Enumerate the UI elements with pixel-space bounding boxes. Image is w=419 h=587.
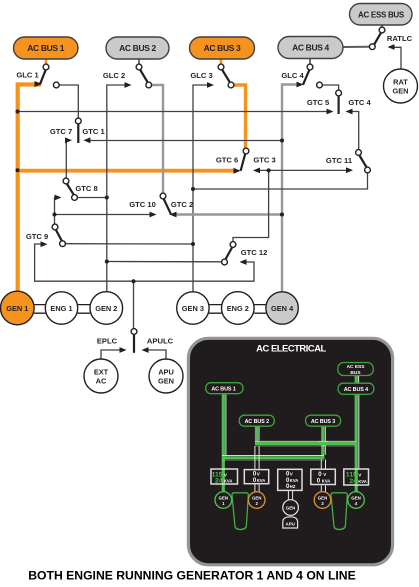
switch GTC10/GTC2 (closed) bbox=[150, 193, 177, 217]
svg-text:KVA: KVA bbox=[224, 479, 233, 484]
svg-text:GTC 7: GTC 7 bbox=[50, 127, 72, 136]
svg-text:GTC 11: GTC 11 bbox=[326, 156, 353, 165]
bus pill AC BUS 4 bbox=[278, 37, 343, 59]
bus pill AC BUS 3 bbox=[190, 37, 255, 59]
wire: EPLC vertical from node to pivot bbox=[133, 281, 135, 329]
label RATLC bbox=[387, 34, 413, 43]
svg-text:GEN: GEN bbox=[219, 496, 229, 501]
wire: AC BUS 4 to RATLC contact bbox=[343, 46, 370, 48]
panel voltage box GEN2 0V 0KVA bbox=[244, 470, 268, 484]
wire: orange powered path GEN1 to GLC1 and down bbox=[18, 85, 41, 293]
svg-text:BUS: BUS bbox=[350, 370, 361, 376]
switch GLC3 (open) bbox=[207, 64, 234, 88]
svg-text:AC BUS 3: AC BUS 3 bbox=[204, 43, 241, 53]
label GTC 7 bbox=[50, 127, 72, 136]
svg-text:GEN 3: GEN 3 bbox=[182, 304, 204, 313]
svg-text:GTC 2: GTC 2 bbox=[171, 200, 193, 209]
svg-text:AC BUS 2: AC BUS 2 bbox=[245, 419, 269, 425]
node dot x193 y244 bbox=[191, 242, 195, 246]
node dot x269 y169.5 bbox=[267, 168, 271, 172]
svg-text:GTC 12: GTC 12 bbox=[241, 248, 268, 257]
svg-text:GEN: GEN bbox=[158, 377, 174, 386]
source APU GEN bbox=[149, 359, 183, 393]
panel APU shape bbox=[283, 517, 298, 528]
panel voltage box GEN1 115V 24KVA bbox=[211, 469, 238, 485]
switch GLC1 (closed) bbox=[35, 64, 60, 88]
label GTC 11 bbox=[326, 156, 353, 165]
wire: RAT GEN up to RATLC arrow bbox=[392, 47, 401, 69]
generator GEN 2 bbox=[90, 292, 123, 325]
wire: GTC9 right contact to node x=193 bbox=[65, 243, 193, 245]
generator GEN 1 bbox=[1, 291, 35, 325]
svg-text:GEN 4: GEN 4 bbox=[271, 304, 294, 313]
panel bus label box AC ESS BUS bbox=[338, 363, 374, 376]
svg-text:APULC: APULC bbox=[147, 337, 174, 346]
svg-text:EPLC: EPLC bbox=[97, 337, 118, 346]
svg-text:GTC 4: GTC 4 bbox=[348, 98, 371, 107]
wire: AC BUS 3 orange stub bbox=[220, 59, 223, 64]
svg-text:GEN: GEN bbox=[351, 496, 361, 501]
svg-text:AC ELECTRICAL: AC ELECTRICAL bbox=[256, 343, 326, 354]
label GLC 4 bbox=[281, 71, 304, 80]
label GTC 6 bbox=[216, 156, 238, 165]
switch GTC11 (open) bbox=[346, 150, 370, 174]
panel white feeder GEN2 bbox=[255, 446, 259, 492]
display panel AC ELECTRICAL bbox=[188, 338, 392, 565]
bus pill AC BUS 2 bbox=[106, 37, 169, 59]
svg-text:AC BUS 4: AC BUS 4 bbox=[292, 43, 329, 53]
svg-text:AC BUS 1: AC BUS 1 bbox=[27, 43, 64, 53]
wire: orange GLC3 right contact down to GTC6 pivot bbox=[234, 85, 246, 148]
wire: horizontal bus line y=111.5 bbox=[18, 111, 329, 113]
panel green AC BUS2 drop bbox=[257, 426, 260, 445]
svg-text:AC: AC bbox=[96, 377, 107, 386]
switch GTC7/GTC1 (open) bbox=[65, 118, 90, 143]
wire: GLC1 right contact down to GTC7 pivot bbox=[59, 85, 78, 118]
svg-text:ENG 1: ENG 1 bbox=[50, 304, 72, 313]
panel white edge of upper tie bbox=[255, 440, 356, 442]
svg-text:AC ESS: AC ESS bbox=[347, 364, 366, 370]
caption BOTH ENGINE RUNNING GENERATOR 1 AND 4 ON LINE bbox=[28, 569, 356, 583]
bus pill AC ESS BUS bbox=[350, 4, 413, 26]
panel green tie ESS to BUS4 bbox=[356, 376, 358, 384]
switch EPLC/APULC (open) bbox=[120, 329, 149, 353]
node dot x54.5 y214.5 bbox=[53, 213, 57, 217]
svg-text:24: 24 bbox=[349, 478, 357, 485]
svg-text:GEN 2: GEN 2 bbox=[95, 304, 117, 313]
label APULC bbox=[147, 337, 174, 346]
wire: GTC7 left contact down to GTC8 pivot bbox=[66, 141, 68, 179]
connector bars GEN3-ENG2 bbox=[209, 305, 222, 314]
panel APU GEN circle bbox=[283, 500, 299, 516]
panel engine pylon 2 bbox=[331, 493, 347, 530]
label GTC 2 bbox=[171, 200, 193, 209]
svg-text:AC BUS 1: AC BUS 1 bbox=[211, 387, 235, 393]
wire: GTC2 right to x=282 bbox=[173, 213, 282, 215]
node dot x107 y261.5 bbox=[105, 260, 109, 264]
svg-text:GTC 1: GTC 1 bbox=[82, 127, 105, 136]
source EXT AC bbox=[84, 359, 118, 393]
panel bus label box AC BUS 1 bbox=[206, 383, 243, 394]
wire: AC BUS 2 stub bbox=[138, 59, 140, 64]
wire: AC BUS 1 orange stub bbox=[45, 59, 48, 64]
wire: GTC8 right contact to x=107 bbox=[77, 197, 107, 199]
panel GEN 1 circle bbox=[215, 492, 232, 509]
label GTC 9 bbox=[26, 232, 48, 241]
generator GEN 4 bbox=[266, 292, 298, 324]
panel voltage box APU 0V 0KVA 0HZ bbox=[278, 469, 302, 490]
svg-text:GEN: GEN bbox=[392, 87, 408, 96]
panel white feeder GEN3 bbox=[321, 460, 325, 492]
wire: GTC11 contact elbow down-left to node x=193 bbox=[193, 173, 368, 189]
panel bus label box AC BUS 4 bbox=[338, 383, 374, 394]
svg-text:ENG 2: ENG 2 bbox=[227, 304, 249, 313]
panel white edge of lower tie bbox=[222, 455, 324, 457]
panel GEN 3 circle bbox=[314, 492, 331, 509]
svg-text:GLC 2: GLC 2 bbox=[103, 71, 125, 80]
svg-text:GLC 1: GLC 1 bbox=[16, 71, 39, 80]
svg-text:KVA: KVA bbox=[257, 478, 266, 483]
panel GEN 4 circle bbox=[348, 492, 365, 509]
svg-text:RAT: RAT bbox=[393, 78, 408, 87]
wire: orange branch y=170 to GTC6 bbox=[18, 169, 236, 173]
label GLC 1 bbox=[16, 71, 39, 80]
wire: GLC4 left contact down to GEN4 bbox=[282, 85, 298, 293]
wire: AC ESS BUS stub bbox=[381, 25, 383, 27]
panel GEN 2 circle bbox=[248, 492, 265, 509]
node dot x17.5 y111.5 bbox=[16, 110, 20, 114]
svg-text:RATLC: RATLC bbox=[387, 34, 413, 43]
label GTC 10 bbox=[129, 200, 156, 209]
svg-text:GTC 9: GTC 9 bbox=[26, 232, 48, 241]
connector bars ENG2-GEN4 bbox=[254, 305, 266, 314]
svg-text:AC ESS BUS: AC ESS BUS bbox=[358, 10, 405, 19]
svg-text:KVA: KVA bbox=[322, 478, 331, 483]
wire: GLC2 left contact down to GEN2 bbox=[107, 85, 127, 292]
bus pill AC BUS 1 bbox=[14, 37, 79, 59]
wire: GLC2 right contact down to GTC10 pivot bbox=[152, 85, 164, 193]
wire: GTC4 right contact down to GTC11 pivot bbox=[350, 112, 359, 150]
wire: AC BUS 4 stub bbox=[309, 59, 311, 64]
switch GTC9 (open) bbox=[41, 224, 66, 247]
panel green bus line AC BUS1 down to GEN1 bbox=[223, 394, 226, 492]
svg-text:GEN: GEN bbox=[286, 506, 296, 511]
label GTC 3 bbox=[253, 156, 275, 165]
engine ENG 2 bbox=[222, 292, 255, 325]
switch GTC12 (closed) bbox=[222, 242, 247, 265]
svg-text:HZ: HZ bbox=[290, 484, 296, 489]
svg-text:GEN: GEN bbox=[252, 496, 262, 501]
svg-text:24: 24 bbox=[215, 478, 223, 485]
switch GTC5/GTC4 (open) bbox=[327, 90, 353, 114]
label GTC 5 bbox=[307, 98, 330, 107]
connector bars GEN1-ENG1 bbox=[34, 305, 45, 314]
panel engine pylon 1 bbox=[232, 493, 248, 530]
connector bars ENG1-GEN2 bbox=[78, 305, 91, 314]
wire: GLC3 left contact down to GEN3 bbox=[193, 85, 210, 293]
panel green AC BUS3 drop bbox=[318, 426, 327, 459]
panel green bus line AC BUS4 down to GEN4 bbox=[356, 394, 359, 492]
panel white feeder APU bbox=[288, 490, 292, 500]
svg-text:AC BUS 4: AC BUS 4 bbox=[344, 387, 368, 393]
label GTC 12 bbox=[241, 248, 268, 257]
panel title AC ELECTRICAL bbox=[256, 343, 326, 354]
node dot x282 y214.5 bbox=[280, 213, 284, 217]
svg-text:KVA: KVA bbox=[358, 479, 367, 484]
svg-text:AC BUS 2: AC BUS 2 bbox=[119, 43, 156, 53]
node dot x282 y140.5 bbox=[280, 139, 284, 143]
node dot x107 y197.5 bbox=[105, 196, 109, 200]
svg-text:GEN: GEN bbox=[318, 496, 328, 501]
label GTC 8 bbox=[75, 184, 97, 193]
wire: GLC4 right contact to GTC5 pivot bbox=[322, 85, 338, 90]
panel bus label box AC BUS 3 bbox=[306, 415, 341, 426]
switch GTC6/GTC3 (closed) bbox=[234, 148, 261, 174]
svg-text:GLC 3: GLC 3 bbox=[190, 71, 212, 80]
panel green lower tie y=457.8 bbox=[222, 458, 324, 460]
switch GTC8 (open) bbox=[55, 178, 78, 200]
switch RATLC (closed) bbox=[369, 27, 394, 50]
switch GLC4 (closed) bbox=[297, 64, 323, 88]
engine ENG 1 bbox=[45, 292, 77, 324]
svg-text:GTC 10: GTC 10 bbox=[129, 200, 156, 209]
node dot x133.5 y281.2 bbox=[132, 279, 136, 283]
svg-text:EXT: EXT bbox=[94, 368, 109, 377]
wire: GTC8 left arrow down to GTC9 pivot bbox=[55, 198, 57, 225]
svg-text:APU: APU bbox=[158, 368, 174, 377]
label GLC 2 bbox=[103, 71, 125, 80]
svg-text:APU: APU bbox=[286, 522, 295, 527]
svg-text:GTC 5: GTC 5 bbox=[307, 98, 330, 107]
wire: GTC9 left arrow loop to GTC12 arrow bbox=[35, 244, 254, 281]
generator GEN 3 bbox=[177, 292, 209, 324]
svg-text:AC BUS 3: AC BUS 3 bbox=[311, 419, 335, 425]
svg-text:GEN 1: GEN 1 bbox=[6, 304, 28, 313]
wire: APU GEN up to APULC arrow bbox=[147, 350, 167, 359]
panel voltage box GEN3 0V 0KVA bbox=[311, 469, 336, 484]
wire: horizontal y=214.5 to GTC10 arrow bbox=[55, 214, 153, 216]
wire: GTC12 top elbow up to node y=169.5 bbox=[233, 170, 269, 241]
svg-text:KVA: KVA bbox=[290, 478, 299, 483]
svg-text:GTC 3: GTC 3 bbox=[253, 156, 275, 165]
label GTC 1 bbox=[82, 127, 105, 136]
label EPLC bbox=[97, 337, 118, 346]
source RAT GEN bbox=[384, 69, 418, 103]
wire: GTC1 right contact to x=282 bbox=[90, 140, 282, 142]
label GLC 3 bbox=[190, 71, 212, 80]
svg-text:BOTH ENGINE RUNNING GENERATOR: BOTH ENGINE RUNNING GENERATOR 1 AND 4 ON… bbox=[28, 569, 356, 583]
svg-text:GLC 4: GLC 4 bbox=[281, 71, 304, 80]
switch GLC2 (open) bbox=[125, 64, 152, 88]
node dot x17.5 y170.3 bbox=[16, 168, 20, 172]
panel green upper tie y=443.5 bbox=[255, 444, 356, 446]
svg-text:GTC 8: GTC 8 bbox=[75, 184, 97, 193]
label GTC 4 bbox=[348, 98, 371, 107]
wire: horizontal y=261.5 to GTC12 contact bbox=[107, 261, 222, 263]
wire: GTC3 to GTC11 horizontal y=170 bbox=[258, 169, 347, 171]
node dot x193 y189 bbox=[191, 187, 195, 191]
panel voltage box GEN4 115V 24KVA bbox=[344, 469, 369, 485]
svg-text:GTC 6: GTC 6 bbox=[216, 156, 238, 165]
wire: EXT AC up to EPLC arrow bbox=[101, 350, 122, 359]
panel bus label box AC BUS 2 bbox=[239, 415, 274, 426]
